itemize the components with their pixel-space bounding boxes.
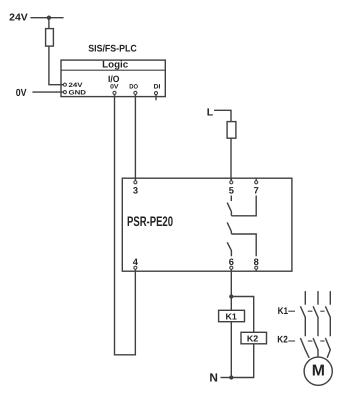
svg-text:4: 4 <box>133 257 139 267</box>
svg-text:DI: DI <box>154 83 161 90</box>
svg-text:M: M <box>312 363 325 380</box>
svg-text:5: 5 <box>229 186 234 196</box>
svg-text:Logic: Logic <box>102 60 129 71</box>
svg-text:L: L <box>207 107 214 118</box>
svg-text:24V: 24V <box>9 13 28 24</box>
svg-text:0V: 0V <box>16 88 27 99</box>
svg-text:K1: K1 <box>278 306 289 317</box>
svg-text:6: 6 <box>229 257 234 267</box>
svg-text:24V: 24V <box>69 82 84 89</box>
svg-text:K2: K2 <box>277 334 288 345</box>
svg-text:GND: GND <box>69 89 87 96</box>
svg-text:0V: 0V <box>110 83 119 90</box>
svg-text:7: 7 <box>254 186 259 196</box>
svg-text:PSR-PE20: PSR-PE20 <box>127 214 173 229</box>
svg-text:DO: DO <box>129 83 138 90</box>
svg-text:SIS/FS-PLC: SIS/FS-PLC <box>88 43 137 54</box>
svg-text:K1: K1 <box>225 311 236 321</box>
svg-text:N: N <box>209 370 218 384</box>
svg-text:8: 8 <box>254 257 259 267</box>
svg-text:3: 3 <box>133 186 138 196</box>
svg-text:K2: K2 <box>247 333 258 343</box>
